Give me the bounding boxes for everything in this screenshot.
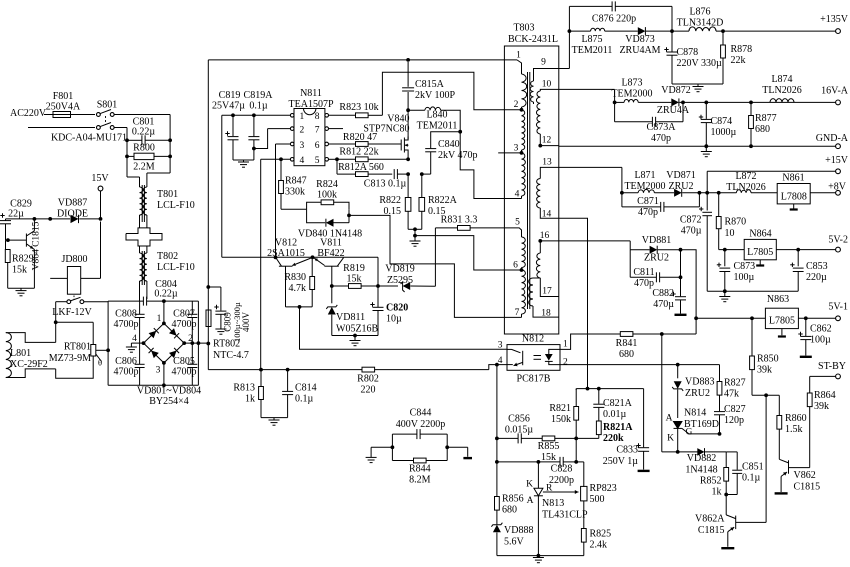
svg-text:1: 1: [300, 112, 305, 122]
wire pin2 ground: [254, 129, 291, 149]
wire base feedback: [300, 307, 508, 349]
svg-text:0.1µ: 0.1µ: [742, 473, 761, 484]
T803 primary winding 2-3: [522, 110, 526, 153]
svg-text:S801: S801: [97, 100, 118, 111]
svg-text:N863: N863: [767, 294, 789, 305]
wire pin14 riser: [559, 218, 590, 390]
diode VD881: [630, 235, 682, 264]
wire N864 gnd: [756, 260, 764, 266]
resistor R847: [279, 159, 307, 209]
svg-text:C872: C872: [680, 215, 702, 226]
svg-text:5: 5: [315, 156, 320, 166]
svg-text:25V47µ: 25V47µ: [212, 101, 245, 112]
transformer T802: [140, 246, 195, 301]
wire pin16 riser: [559, 241, 630, 250]
T803 secondary winding 17-18: [529, 278, 559, 319]
regulator N863: [765, 294, 835, 329]
svg-text:VD811: VD811: [336, 312, 365, 323]
svg-text:ST-BY: ST-BY: [818, 361, 846, 372]
wire pin4: [261, 157, 291, 369]
chassis stub C844 right: [447, 447, 472, 458]
svg-text:8: 8: [315, 112, 320, 122]
diode VD873: [619, 27, 689, 56]
svg-text:1N4148: 1N4148: [685, 465, 717, 476]
T803 pin3 stub: [498, 144, 523, 155]
resistor R844: [392, 458, 447, 485]
svg-text:V812: V812: [275, 238, 297, 249]
wire pin10 riser: [559, 89, 617, 104]
svg-text:L874: L874: [771, 74, 792, 85]
svg-text:R822: R822: [379, 195, 401, 206]
svg-text:L7808: L7808: [781, 192, 807, 203]
wire feedback bottom rail: [497, 554, 584, 563]
svg-text:0.1µ: 0.1µ: [295, 394, 314, 405]
capacitor C827: [714, 404, 746, 434]
svg-text:ZRU4A: ZRU4A: [657, 105, 690, 116]
wire feedback divider row: [576, 387, 643, 391]
svg-text:R812 22k: R812 22k: [339, 147, 378, 158]
svg-text:470µ: 470µ: [653, 299, 674, 310]
transistor V811: [312, 238, 344, 287]
svg-text:4: 4: [515, 190, 520, 200]
terminal ST-BY: [810, 361, 846, 379]
resistor R821: [549, 389, 578, 441]
svg-text:N864: N864: [749, 229, 771, 240]
svg-text:N814: N814: [684, 408, 706, 419]
resistor R821A: [576, 421, 633, 444]
wire emitter rail: [222, 255, 378, 259]
svg-text:220: 220: [361, 385, 376, 396]
T803 pin7: [515, 308, 520, 318]
wire opto pin2 row: [560, 363, 720, 367]
svg-text:C874: C874: [711, 116, 733, 127]
svg-text:400V 2200p: 400V 2200p: [396, 419, 446, 430]
terminal 5V-1: [828, 302, 848, 321]
resistor R870: [716, 194, 746, 252]
resistor R827: [717, 365, 746, 412]
inductor L874: [762, 74, 801, 102]
svg-text:1: 1: [563, 340, 568, 350]
svg-text:18: 18: [541, 309, 551, 319]
svg-text:T802: T802: [157, 251, 178, 262]
resistor R878: [721, 29, 753, 84]
svg-text:ZRU2: ZRU2: [669, 181, 694, 192]
svg-text:XC-29F2: XC-29F2: [10, 359, 48, 370]
svg-text:VD819: VD819: [385, 264, 414, 275]
resistor R822A: [419, 174, 458, 229]
svg-text:TEM2011: TEM2011: [417, 121, 458, 132]
svg-text:L7805: L7805: [747, 247, 773, 258]
svg-text:N813: N813: [542, 498, 564, 509]
svg-text:R850: R850: [757, 354, 779, 365]
terminal GND-A: [816, 133, 849, 149]
svg-text:1k: 1k: [712, 487, 722, 498]
resistor R802: [288, 365, 507, 396]
resistor R813: [233, 370, 263, 418]
svg-text:3: 3: [156, 366, 161, 376]
resistor R831: [435, 215, 504, 231]
svg-text:V862A: V862A: [695, 514, 725, 525]
capacitor C878: [664, 31, 722, 84]
bridge rectifier VD801-VD804: [132, 314, 193, 376]
svg-text:8.2M: 8.2M: [409, 475, 431, 486]
ground V864 emitter: [8, 288, 35, 296]
posistor RT801: [49, 322, 110, 367]
svg-text:C833: C833: [616, 445, 638, 456]
svg-text:220µ: 220µ: [806, 272, 827, 283]
wire snubber to pin4: [460, 132, 504, 199]
svg-text:TEM2000: TEM2000: [611, 89, 652, 100]
terminal 5V-2: [828, 235, 848, 253]
svg-text:RT801: RT801: [64, 342, 91, 353]
svg-text:470p: 470p: [651, 133, 671, 144]
svg-text:C821A: C821A: [603, 398, 633, 409]
inductor L871: [622, 170, 674, 193]
diode VD840: [298, 209, 362, 239]
svg-text:R827: R827: [724, 378, 746, 389]
svg-text:C873: C873: [734, 261, 756, 272]
svg-text:C862: C862: [810, 324, 832, 335]
svg-text:C819: C819: [219, 90, 241, 101]
svg-text:680: 680: [619, 349, 634, 360]
capacitor C806: [114, 343, 145, 385]
resistor R824: [307, 179, 349, 209]
svg-text:BCK-2431L: BCK-2431L: [508, 34, 558, 45]
T803 pin1: [516, 51, 521, 61]
svg-text:+135V: +135V: [820, 14, 849, 25]
svg-text:C806: C806: [115, 356, 137, 367]
transistor V862: [775, 459, 821, 493]
svg-text:2: 2: [563, 358, 568, 368]
capacitor C820: [370, 302, 408, 335]
svg-text:V811: V811: [320, 238, 342, 249]
svg-text:R825: R825: [590, 529, 612, 540]
svg-text:K: K: [667, 434, 674, 444]
svg-text:R855: R855: [538, 441, 560, 452]
wire GND-A rail: [559, 144, 836, 148]
svg-text:AC220V: AC220V: [10, 108, 47, 119]
svg-text:C827: C827: [724, 404, 746, 415]
svg-text:2.4k: 2.4k: [590, 540, 608, 551]
svg-text:R852: R852: [700, 476, 722, 487]
svg-text:150k: 150k: [551, 414, 571, 425]
T803 secondary winding 13-14: [537, 158, 559, 220]
wire bridge pin1: [162, 299, 166, 323]
resistor R822: [379, 174, 411, 229]
svg-text:5V-1: 5V-1: [828, 302, 848, 313]
svg-text:ZRU2: ZRU2: [685, 388, 710, 399]
svg-text:L873: L873: [621, 78, 642, 89]
resistor R841: [560, 332, 696, 360]
svg-text:R878: R878: [731, 44, 753, 55]
svg-text:9: 9: [541, 58, 546, 68]
resistor R852: [700, 452, 729, 498]
capacitor C805: [172, 343, 198, 385]
svg-text:W05Z16B: W05Z16B: [336, 324, 379, 335]
wire N861 gnd: [790, 204, 798, 210]
T803 secondary winding 10-12: [536, 80, 558, 148]
terminal +135V: [820, 14, 849, 34]
svg-text:22k: 22k: [731, 55, 746, 66]
svg-text:N811: N811: [300, 88, 322, 99]
terminal +8V: [828, 182, 847, 196]
svg-text:C828: C828: [551, 464, 573, 475]
svg-text:0.15: 0.15: [384, 206, 402, 217]
svg-text:TL431CLP: TL431CLP: [542, 510, 588, 521]
svg-text:R800: R800: [133, 143, 155, 154]
wire driver mid rail: [286, 305, 313, 309]
transformer T803: [504, 23, 558, 335]
svg-text:VD887: VD887: [58, 198, 87, 209]
svg-text:NTC-4.7: NTC-4.7: [213, 350, 249, 361]
capacitor C873: [717, 250, 755, 292]
resistor R829: [5, 240, 33, 288]
inductor L872: [726, 171, 777, 193]
svg-text:C813 0.1µ: C813 0.1µ: [364, 179, 407, 190]
ground current sense: [408, 227, 422, 246]
T803 primary winding 3-4: [504, 153, 525, 199]
terminal +15V: [707, 155, 849, 193]
svg-text:R819: R819: [343, 263, 365, 274]
svg-text:R847: R847: [285, 176, 307, 187]
svg-text:7: 7: [315, 125, 320, 135]
resistor R864: [807, 376, 835, 467]
transistor V812: [267, 238, 311, 307]
wire pin7 stub: [329, 128, 344, 130]
svg-text:47k: 47k: [724, 389, 739, 400]
svg-text:120p: 120p: [724, 415, 744, 426]
wire bridge pin2 to RT802: [184, 341, 208, 345]
svg-text:2: 2: [300, 125, 305, 135]
svg-text:VD873: VD873: [625, 34, 654, 45]
IC N811 TEA1507P: [289, 88, 334, 166]
svg-text:220V 330µ: 220V 330µ: [677, 58, 723, 69]
svg-text:R802: R802: [357, 374, 379, 385]
svg-text:C873A: C873A: [647, 122, 677, 133]
wire R841 node to K: [662, 334, 678, 452]
capacitor C828: [537, 438, 584, 487]
ground C844 left: [366, 447, 393, 462]
svg-text:R813: R813: [233, 383, 255, 394]
svg-text:F801: F801: [53, 91, 74, 102]
svg-text:RP823: RP823: [590, 483, 617, 494]
svg-text:N861: N861: [782, 173, 804, 184]
svg-text:3: 3: [300, 141, 305, 151]
ground GND-A: [701, 146, 712, 157]
svg-text:L876: L876: [689, 7, 710, 18]
svg-text:R877: R877: [755, 113, 777, 124]
resistor R800: [125, 143, 172, 173]
switch S801: [97, 100, 118, 130]
inductor L873: [611, 78, 671, 103]
regulator N864: [744, 229, 835, 260]
optocoupler N812: [498, 334, 568, 385]
capacitor C833: [603, 389, 650, 471]
svg-text:R823 10k: R823 10k: [339, 102, 378, 113]
svg-text:1.5k: 1.5k: [785, 424, 803, 435]
svg-text:VD883: VD883: [685, 377, 714, 388]
svg-text:6: 6: [513, 261, 518, 271]
ground filter rail: [707, 289, 798, 301]
inductor L875: [569, 28, 637, 56]
svg-text:L871: L871: [634, 170, 655, 181]
svg-text:TEM2000: TEM2000: [624, 181, 665, 192]
svg-text:100k: 100k: [317, 190, 337, 201]
svg-text:2kV 100P: 2kV 100P: [415, 90, 456, 101]
svg-text:0.01µ: 0.01µ: [603, 409, 627, 420]
wire B+ row: [208, 368, 263, 372]
svg-text:C820: C820: [386, 303, 408, 314]
svg-text:2200p: 2200p: [549, 475, 574, 486]
resistor R819: [330, 263, 380, 288]
svg-text:4700p: 4700p: [114, 367, 139, 378]
ground C878 R878: [672, 84, 723, 92]
wire bridge pin3: [162, 363, 166, 387]
ground at bridge pin4: [126, 343, 144, 352]
core between T801 T802: [126, 228, 162, 246]
svg-text:PC817B: PC817B: [517, 374, 551, 385]
zener VD888: [491, 523, 533, 556]
svg-text:L7805: L7805: [769, 316, 795, 327]
svg-text:10: 10: [542, 80, 552, 90]
svg-text:L872: L872: [735, 171, 756, 182]
capacitor C813: [364, 169, 410, 189]
svg-text:R821A: R821A: [603, 422, 633, 433]
svg-text:15k: 15k: [541, 452, 556, 463]
svg-text:4700p: 4700p: [114, 319, 139, 330]
degaussing coil L801: [6, 322, 93, 378]
resistor R820: [329, 132, 399, 146]
T803 secondary winding 9: [530, 58, 559, 105]
svg-text:+15V: +15V: [825, 155, 849, 166]
svg-text:C856: C856: [508, 414, 530, 425]
capacitor C840: [420, 132, 478, 176]
svg-text:T803: T803: [513, 23, 534, 34]
svg-text:R844: R844: [409, 464, 431, 475]
capacitor C856: [497, 414, 542, 444]
bridge enclosure box: [108, 301, 198, 385]
svg-text:6: 6: [315, 141, 320, 151]
svg-text:VD888: VD888: [504, 525, 533, 536]
svg-text:1: 1: [516, 51, 521, 61]
T803 pin2: [514, 100, 524, 112]
svg-text:R864: R864: [814, 390, 836, 401]
svg-text:R829: R829: [12, 254, 34, 265]
zener VD811: [326, 286, 378, 336]
capacitor C871: [622, 191, 701, 218]
svg-text:39k: 39k: [757, 365, 772, 376]
svg-text:10: 10: [725, 228, 735, 239]
svg-text:GND-A: GND-A: [816, 133, 849, 144]
resistor R812: [329, 147, 411, 162]
T803 primary winding 6-7: [504, 270, 525, 317]
svg-text:16V-A: 16V-A: [821, 86, 849, 97]
diode VD887: [34, 198, 102, 224]
capacitor C815A: [402, 79, 455, 101]
svg-text:VD872: VD872: [661, 85, 690, 96]
svg-text:0.015µ: 0.015µ: [505, 425, 534, 436]
wire 5V-1 input row: [696, 316, 765, 320]
svg-text:ZRU2: ZRU2: [644, 253, 669, 264]
svg-text:KDC-A04-MU171: KDC-A04-MU171: [51, 133, 127, 144]
svg-text:0.1µ: 0.1µ: [249, 101, 268, 112]
capacitor C809: [208, 287, 251, 342]
wire sense to pin6: [415, 236, 522, 270]
diode VD872: [657, 85, 836, 116]
svg-text:V862: V862: [794, 470, 816, 481]
svg-text:2: 2: [514, 100, 519, 110]
svg-text:C805: C805: [173, 356, 195, 367]
svg-text:BF422: BF422: [317, 248, 344, 259]
svg-text:1k: 1k: [245, 394, 255, 405]
svg-text:13: 13: [542, 158, 552, 168]
svg-text:A: A: [527, 496, 534, 506]
capacitor C851: [726, 452, 763, 495]
T803 pin6: [513, 261, 523, 272]
shunt regulator N813: [526, 462, 588, 556]
svg-text:θ: θ: [98, 358, 102, 368]
T803 pin4: [515, 190, 520, 200]
svg-text:C811: C811: [633, 267, 654, 278]
capacitor C819A: [244, 90, 274, 160]
svg-text:L840: L840: [426, 110, 447, 121]
resistor R825: [581, 529, 611, 556]
capacitor C876: [569, 1, 673, 33]
svg-text:C819A: C819A: [244, 90, 274, 101]
svg-text:C840: C840: [438, 139, 460, 150]
svg-text:15V: 15V: [91, 173, 109, 184]
svg-text:5V-2: 5V-2: [828, 235, 848, 246]
svg-text:ZRU4AM: ZRU4AM: [619, 45, 660, 56]
svg-text:LCL-F10: LCL-F10: [157, 262, 195, 273]
wire pin9 riser: [559, 29, 572, 68]
capacitor C811: [630, 250, 682, 289]
svg-text:R830: R830: [284, 272, 306, 283]
svg-text:STP7NC80: STP7NC80: [363, 124, 409, 135]
svg-text:2SA1015: 2SA1015: [267, 248, 305, 259]
wire top rail B+: [208, 59, 517, 61]
wire pin13 riser: [559, 167, 624, 194]
svg-text:C844: C844: [410, 408, 432, 419]
svg-text:500: 500: [590, 494, 605, 505]
resistor R830: [284, 257, 314, 307]
svg-text:VD882: VD882: [687, 453, 716, 464]
label VD801-VD804: [137, 386, 201, 408]
svg-text:4: 4: [300, 156, 305, 166]
diode VD871: [666, 170, 700, 197]
svg-text:C853: C853: [806, 261, 828, 272]
resistor R860: [777, 395, 807, 459]
MOSFET V840: [363, 114, 409, 160]
wire VD819 riser: [434, 228, 436, 286]
svg-text:100µ: 100µ: [810, 335, 831, 346]
svg-text:17: 17: [542, 287, 552, 297]
wire VD840 to pin7 T803: [349, 215, 504, 317]
svg-text:MZ73-9M: MZ73-9M: [49, 353, 91, 364]
svg-text:0.22µ: 0.22µ: [132, 127, 156, 138]
svg-text:3: 3: [498, 341, 503, 351]
capacitor C804: [143, 279, 177, 306]
svg-text:C1815: C1815: [698, 525, 725, 536]
svg-text:5: 5: [515, 218, 520, 228]
svg-text:1: 1: [157, 314, 162, 324]
resistor R823: [329, 72, 522, 118]
svg-text:C1815: C1815: [794, 482, 821, 493]
svg-text:15k: 15k: [12, 265, 27, 276]
svg-text:400V: 400V: [241, 312, 251, 333]
svg-text:680: 680: [502, 505, 517, 516]
diode VD882: [678, 448, 727, 475]
